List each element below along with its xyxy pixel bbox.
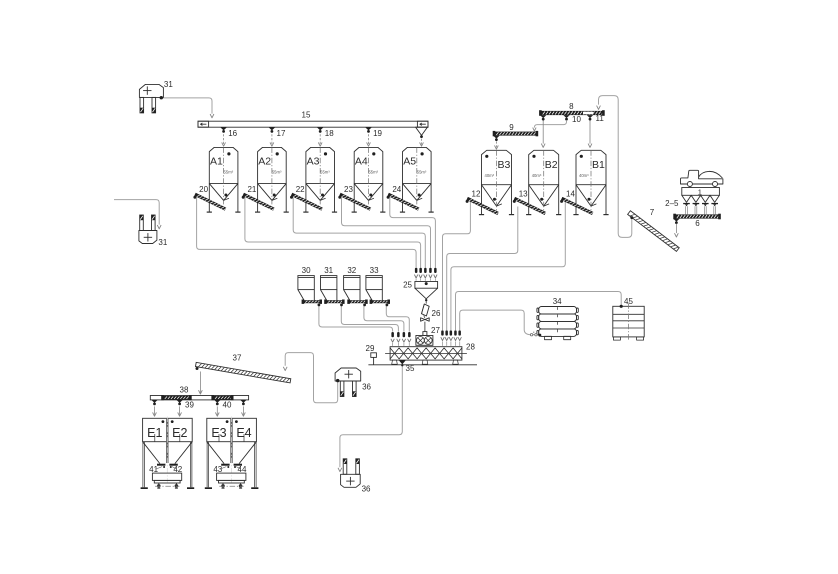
svg-text:20: 20 [199, 185, 208, 194]
drop into bin [179, 406, 181, 415]
svg-text:2–5: 2–5 [665, 199, 679, 208]
svg-text:40m³: 40m³ [579, 173, 589, 178]
silo A1 [207, 147, 241, 212]
mixer right inlet pipe [450, 330, 453, 335]
svg-text:40: 40 [223, 401, 232, 410]
svg-text:1: 1 [698, 187, 702, 196]
svg-text:28: 28 [466, 342, 475, 351]
svg-text:9: 9 [509, 123, 514, 132]
svg-text:B1: B1 [592, 159, 605, 171]
drop from 37 to conveyor 38 [199, 372, 201, 394]
svg-text:31: 31 [164, 80, 173, 89]
screw conveyor 23 [339, 193, 372, 211]
inclined screw conveyor 37 [195, 362, 290, 382]
screw conveyor 20 [194, 193, 227, 211]
wire feeder 31 to mixer inlet [341, 306, 398, 332]
svg-text:44: 44 [238, 465, 247, 474]
conveyor 8 outlet 11 [587, 115, 593, 118]
svg-text:42: 42 [173, 465, 182, 474]
wire feeder 33 to mixer inlet [386, 306, 409, 332]
svg-text:25: 25 [403, 281, 412, 290]
conveyor 15 outlet 16 [220, 127, 226, 130]
svg-text:29: 29 [366, 344, 375, 353]
wire conveyor 8 outlet 10 to conveyor 9 [534, 121, 566, 128]
silo A3 [303, 147, 337, 212]
svg-text:40m³: 40m³ [485, 173, 495, 178]
chain conveyor 15 [198, 111, 428, 128]
finished feed bins E1/E2 [141, 417, 195, 490]
wire bulk truck 36 to screw 37 [285, 353, 338, 403]
conveyor 15 outlet 17 [269, 127, 275, 130]
drop into silo A4 [368, 134, 370, 145]
wire screw 23 to hopper 25 inlet [342, 198, 431, 268]
mixer right inlet pipe [445, 330, 448, 335]
mixer right inlet pipe [441, 330, 444, 335]
conveyor 8 outlet 10 [563, 115, 569, 118]
svg-text:55m³: 55m³ [320, 170, 330, 175]
conveyor 38 outlet [151, 400, 157, 403]
wire mixer outlet 35 to bulk truck 36 [340, 366, 402, 467]
drop into silo A1 [223, 134, 225, 145]
mixer left inlet pipe [397, 332, 400, 337]
hand-add hopper 32 [344, 266, 360, 300]
svg-text:8: 8 [569, 102, 574, 111]
svg-text:41: 41 [149, 465, 158, 474]
svg-text:34: 34 [553, 297, 562, 306]
svg-text:17: 17 [277, 129, 286, 138]
mixer right inlet pipe [454, 330, 457, 335]
bagging scale cart 41/42 [149, 465, 183, 488]
feeder screw under hopper 32 [348, 300, 367, 303]
svg-text:22: 22 [296, 185, 305, 194]
svg-text:14: 14 [566, 189, 575, 198]
silo A2 [255, 147, 289, 212]
wire screw 20 to hopper 25 inlet [197, 198, 417, 268]
screw conveyor 14 [561, 197, 594, 215]
silo B1 [573, 150, 608, 214]
svg-text:21: 21 [247, 185, 256, 194]
svg-text:13: 13 [519, 189, 528, 198]
svg-text:55m³: 55m³ [224, 170, 234, 175]
svg-text:36: 36 [362, 484, 371, 493]
mixer right inlet pipe [458, 330, 461, 335]
hopper 25 inlet pipe [424, 268, 427, 273]
svg-text:12: 12 [472, 189, 481, 198]
screw conveyor 21 [243, 193, 276, 211]
batch weigh hopper 25 [403, 281, 438, 302]
svg-text:27: 27 [431, 326, 440, 335]
wire screw 22 to hopper 25 inlet [293, 198, 425, 268]
svg-text:36: 36 [362, 383, 371, 392]
drop into bin [216, 406, 218, 415]
bag pallet stack 34 [537, 297, 578, 339]
wire pallet 34 to mixer inlet [460, 310, 531, 335]
svg-text:31: 31 [158, 238, 167, 247]
screw conveyor 12 [466, 197, 499, 215]
bulk truck 31 inload [139, 80, 173, 113]
wire off-page to truck 31 outload [114, 200, 159, 225]
chain conveyor 9 [493, 132, 537, 136]
svg-text:40m³: 40m³ [532, 173, 542, 178]
drop into bin [242, 406, 244, 415]
mixer left inlet pipe [391, 332, 394, 337]
mixer left inlet pipe [403, 332, 406, 337]
wire screw 14 to mixer inlet [451, 202, 565, 331]
svg-text:B2: B2 [545, 159, 558, 171]
svg-text:55m³: 55m³ [368, 170, 378, 175]
svg-text:24: 24 [392, 185, 401, 194]
svg-text:A4: A4 [355, 155, 368, 167]
feeder screw under hopper 31 [325, 300, 344, 303]
mixer left inlet pipe [408, 332, 411, 337]
conveyor 15 discharge funnel to A5 [416, 127, 428, 135]
wire elevator from conveyor 7 to conveyor 8 [599, 96, 632, 238]
chain conveyor 8 [540, 111, 604, 115]
svg-text:19: 19 [373, 129, 382, 138]
hopper 25 inlet pipe [434, 268, 437, 273]
conveyor 38 outlet [214, 400, 220, 403]
svg-text:15: 15 [302, 111, 311, 120]
flexible coupling at pallet 34 [530, 332, 541, 337]
hand-add hopper 31 [321, 266, 337, 300]
wire screw 12 to mixer inlet [443, 202, 471, 331]
svg-text:30: 30 [302, 266, 311, 275]
hand-add hopper 30 [298, 266, 314, 300]
svg-text:10: 10 [572, 115, 581, 124]
drop into silo B2 [542, 120, 544, 143]
svg-text:55m³: 55m³ [417, 170, 427, 175]
screw conveyor 13 [514, 197, 547, 215]
svg-text:A5: A5 [403, 155, 416, 167]
silo B3 [479, 150, 514, 214]
svg-text:A3: A3 [307, 155, 320, 167]
hand-add hopper 33 [366, 266, 382, 300]
feeder screw under hopper 33 [370, 300, 389, 303]
svg-text:33: 33 [370, 266, 379, 275]
svg-text:26: 26 [432, 309, 441, 318]
svg-text:39: 39 [185, 401, 194, 410]
wire feeder 30 to mixer inlet [319, 306, 393, 332]
svg-text:32: 32 [347, 266, 356, 275]
wire screw 24 to hopper 25 inlet [390, 198, 436, 268]
drop into silo B1 [589, 120, 591, 143]
silo A5 [400, 147, 434, 212]
svg-text:6: 6 [695, 219, 700, 228]
svg-text:16: 16 [228, 129, 237, 138]
drop into bin [154, 406, 156, 415]
conveyor 15 outlet 19 [365, 127, 371, 130]
bulk truck 31 outload [139, 215, 168, 247]
premix bulk truck 36 [335, 368, 371, 397]
bag stack 45 [613, 297, 644, 340]
wire screw 13 to mixer inlet [447, 207, 518, 331]
screw conveyor 22 [291, 193, 324, 211]
paddle mixer 28 [385, 342, 475, 366]
receiving pit hoppers 2-5 [665, 187, 719, 214]
wire pallet 45 to mixer inlet [456, 292, 622, 331]
drop into silo B3 [495, 141, 497, 148]
wire feeder 32 to mixer inlet [364, 306, 404, 332]
silo A4 [352, 147, 386, 212]
conveyor 8 left outlet to B2 [540, 115, 546, 118]
inclined conveyor 7 [628, 211, 680, 252]
svg-text:B3: B3 [498, 159, 511, 171]
svg-text:37: 37 [233, 354, 242, 363]
svg-text:23: 23 [344, 185, 353, 194]
svg-text:A2: A2 [258, 155, 271, 167]
finished feed bins E3/E4 [205, 417, 259, 490]
svg-text:35: 35 [406, 364, 415, 373]
delivery truck 1 [681, 170, 723, 186]
drop into silo A3 [319, 134, 321, 145]
support 29 [366, 344, 377, 365]
chain conveyor 38 [150, 386, 248, 401]
svg-text:A1: A1 [210, 155, 223, 167]
feeder screw under hopper 30 [302, 300, 321, 303]
svg-text:7: 7 [650, 208, 655, 217]
conveyor 38 outlet [176, 400, 182, 403]
drop into silo A5 [421, 139, 423, 146]
screw conveyor 24 [387, 193, 420, 211]
hopper 25 inlet pipe [415, 268, 418, 273]
finished feed bulk truck 36 [341, 459, 371, 494]
conveyor 6 outlet to conveyor 7 [673, 219, 679, 222]
svg-text:43: 43 [213, 465, 222, 474]
svg-text:18: 18 [325, 129, 334, 138]
conveyor 9 outlet to B3 [493, 136, 499, 139]
hopper 25 inlet pipe [419, 268, 422, 273]
wire truck31 to conveyor 15 [161, 98, 212, 114]
svg-text:45: 45 [624, 297, 633, 306]
diverter valve 26 [421, 301, 441, 321]
wire screw 21 to hopper 25 inlet [245, 198, 421, 268]
conveyor 38 outlet [240, 400, 246, 403]
svg-text:11: 11 [596, 114, 605, 123]
svg-text:31: 31 [324, 266, 333, 275]
silo B2 [526, 150, 561, 214]
bagging scale cart 43/44 [213, 465, 247, 488]
svg-text:55m³: 55m³ [272, 170, 282, 175]
conveyor 15 outlet 18 [317, 127, 323, 130]
drop into silo A2 [271, 134, 273, 145]
svg-text:38: 38 [180, 386, 189, 395]
hopper 25 inlet pipe [429, 268, 432, 273]
ground line under mixer [368, 364, 477, 366]
chain conveyor 6 [674, 214, 720, 218]
rotary feeder 27 [416, 322, 441, 346]
